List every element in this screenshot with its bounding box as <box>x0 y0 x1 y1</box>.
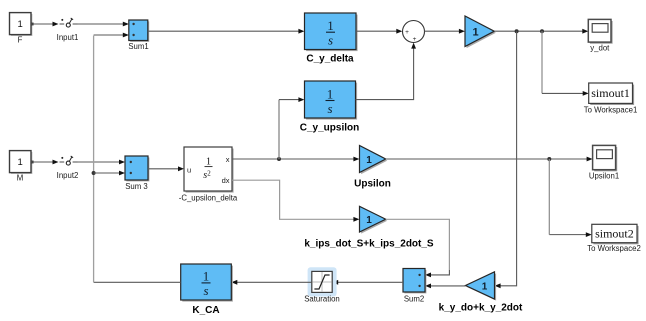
gain k_ips_dot_S+k_ips_2dot_S <box>360 206 388 233</box>
svg-text:x: x <box>226 155 230 164</box>
sum block Sum2 <box>403 269 426 294</box>
svg-text:Upsilon: Upsilon <box>354 179 391 190</box>
wire K_CA feedback to Sum1 <box>94 33 181 283</box>
junction node on x line <box>277 157 281 161</box>
svg-text:M: M <box>17 174 24 183</box>
junction node on Upsilon line <box>547 157 551 161</box>
wire C_y_delta to sum circle <box>356 29 402 34</box>
svg-text:1: 1 <box>482 281 488 292</box>
svg-text:Sum 3: Sum 3 <box>125 182 148 191</box>
wire C_y_upsilon to sum circle bottom <box>356 43 417 100</box>
svg-text:1: 1 <box>203 269 210 284</box>
wire Sum 3 to transfer fcn <box>148 166 184 171</box>
svg-text:s: s <box>328 33 333 48</box>
junction node after gain1 <box>515 29 519 33</box>
integrator C_y_delta <box>305 13 358 51</box>
constant M <box>10 151 33 174</box>
wire sum circle to gain1 <box>425 29 465 34</box>
svg-text:u: u <box>187 165 191 174</box>
wire branch up to C_y_upsilon <box>279 97 304 159</box>
integrator K_CA <box>181 264 233 302</box>
svg-text:s: s <box>203 283 208 298</box>
wire F to Input1 switch <box>31 22 59 27</box>
svg-text:+: + <box>413 36 417 43</box>
wire Upsilon to scope Upsilon1 <box>386 157 593 162</box>
manual switch Input1 <box>60 18 78 27</box>
wire long feedback vertical to k_y gain <box>495 31 517 288</box>
wire k_y gain to Sum2 bottom input <box>425 284 466 289</box>
svg-text:To Workspace1: To Workspace1 <box>584 106 638 115</box>
wire Input2 to Sum 3 <box>78 160 126 165</box>
svg-text:1: 1 <box>206 157 211 168</box>
svg-text:Sum1: Sum1 <box>128 42 148 51</box>
svg-text:1: 1 <box>472 27 478 39</box>
wire Input1 to Sum1 <box>78 22 129 27</box>
junction node feedback to Sum 3 <box>92 171 96 175</box>
svg-text:-C_upsilon_delta: -C_upsilon_delta <box>179 194 238 203</box>
to-workspace simout2 <box>592 224 639 244</box>
svg-text:s: s <box>327 101 332 116</box>
wire Sum1 to C_y_delta <box>148 29 305 34</box>
sum junction circle <box>403 21 425 44</box>
svg-text:k_y_do+k_y_2dot: k_y_do+k_y_2dot <box>439 303 523 314</box>
saturation block Saturation <box>308 267 337 296</box>
svg-text:Saturation: Saturation <box>304 295 340 304</box>
sum block Sum1 <box>129 20 149 42</box>
gain block 1 (top) <box>465 16 496 48</box>
svg-text:simout2: simout2 <box>595 227 634 241</box>
gain Upsilon <box>360 146 388 175</box>
wire branch to simout2 <box>549 159 592 237</box>
svg-text:C_y_upsilon: C_y_upsilon <box>300 123 359 134</box>
to-workspace simout1 <box>589 83 634 105</box>
wire gain1 to scope y_dot <box>494 29 588 34</box>
svg-text:1: 1 <box>366 215 372 226</box>
integrator C_y_upsilon <box>305 81 358 120</box>
svg-text:Input2: Input2 <box>57 171 79 180</box>
svg-text:1: 1 <box>18 19 23 30</box>
svg-text:F: F <box>18 36 23 45</box>
wire M to Input2 switch <box>31 160 59 165</box>
svg-text:y_dot: y_dot <box>590 44 610 53</box>
port nub of M <box>31 161 34 164</box>
transfer-fcn -C_upsilon_delta <box>184 147 234 193</box>
svg-text:Upsilon1: Upsilon1 <box>589 172 619 181</box>
wire Saturation to K_CA <box>231 280 311 285</box>
svg-text:1: 1 <box>366 155 372 166</box>
svg-text:1: 1 <box>327 86 334 101</box>
svg-text:k_ips_dot_S+k_ips_2dot_S: k_ips_dot_S+k_ips_2dot_S <box>304 239 434 250</box>
wire k_ips gain to Sum2 top input <box>386 219 450 277</box>
wire x output to Upsilon gain <box>232 157 359 162</box>
svg-text:+: + <box>405 29 409 36</box>
svg-text:C_y_delta: C_y_delta <box>306 54 354 65</box>
wire dx output to k_ips gain <box>232 180 359 222</box>
wire Sum2 to Saturation <box>332 280 403 285</box>
junction node to simout1 <box>540 29 544 33</box>
constant F <box>10 13 33 36</box>
svg-text:Input1: Input1 <box>57 33 79 42</box>
svg-text:K_CA: K_CA <box>192 305 219 316</box>
scope Upsilon1 <box>593 145 618 171</box>
scope y_dot <box>588 19 612 43</box>
svg-text:simout1: simout1 <box>591 86 630 100</box>
manual switch Input2 <box>60 156 78 165</box>
gain k_y_do+k_y_2dot <box>466 272 497 301</box>
svg-text:Sum2: Sum2 <box>404 295 424 304</box>
port nub of F <box>31 23 34 26</box>
wire feedback branch to Sum 3 <box>94 171 125 176</box>
svg-text:1: 1 <box>327 18 334 33</box>
svg-text:1: 1 <box>18 157 23 168</box>
wire branch to simout1 <box>542 31 589 96</box>
svg-text:dx: dx <box>222 176 230 185</box>
sum block Sum 3 <box>125 156 149 181</box>
svg-text:To Workspace2: To Workspace2 <box>587 244 641 253</box>
